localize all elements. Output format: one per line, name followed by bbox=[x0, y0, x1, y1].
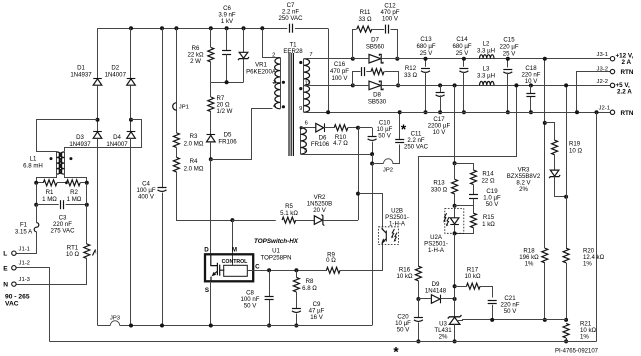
svg-text:VAC: VAC bbox=[5, 301, 19, 308]
wire R6 bottom bbox=[210, 62, 212, 82]
svg-text:10 kΩ: 10 kΩ bbox=[396, 273, 413, 280]
wire R10 to bias node bbox=[348, 127, 358, 129]
node C21 ref bbox=[490, 318, 494, 322]
svg-text:10 V: 10 V bbox=[433, 129, 446, 136]
capacitor C7 bbox=[290, 24, 293, 33]
label E bbox=[3, 265, 8, 272]
svg-text:0 Ω: 0 Ω bbox=[326, 257, 336, 264]
wire C6 top lead bbox=[226, 28, 228, 51]
wire VR1 top lead bbox=[243, 28, 245, 52]
label R12 bbox=[404, 65, 417, 79]
optocoupler U2A box bbox=[445, 209, 464, 234]
label pin 3 bbox=[273, 80, 276, 86]
wire R20 bottom to ref row bbox=[566, 263, 568, 320]
wire AC2 jog bbox=[65, 120, 142, 152]
wire drain node to U1 D pin bbox=[210, 159, 212, 254]
wire C21 bottom lead bbox=[492, 305, 494, 320]
svg-text:7: 7 bbox=[309, 52, 312, 58]
label J1-3 bbox=[19, 277, 31, 283]
transformer T1 bias phase dot bbox=[300, 126, 303, 129]
svg-text:RTN: RTN bbox=[621, 110, 634, 117]
label J2-2 bbox=[597, 79, 608, 85]
resistor R7 bbox=[208, 97, 214, 112]
node C15 bottom bbox=[506, 110, 510, 114]
wire R1 row left bbox=[36, 182, 43, 184]
wire M pin riser bbox=[232, 220, 234, 265]
wire C12 to D7 cathode bbox=[391, 30, 398, 59]
svg-text:2.0 MΩ: 2.0 MΩ bbox=[184, 140, 204, 147]
node M pin row bbox=[230, 218, 234, 222]
label R10 bbox=[333, 134, 348, 147]
terminal J1-2 E bbox=[12, 266, 16, 270]
wire VR1 bottom lead bbox=[243, 59, 245, 83]
wire R19 to VR3 bbox=[554, 155, 556, 170]
svg-text:16 V: 16 V bbox=[310, 314, 323, 321]
svg-text:JP2: JP2 bbox=[383, 168, 393, 174]
label JP3 bbox=[110, 316, 121, 322]
label R3 bbox=[184, 133, 204, 147]
svg-text:R4: R4 bbox=[190, 158, 198, 165]
svg-text:D1: D1 bbox=[77, 65, 85, 72]
label pin 4 bbox=[273, 103, 277, 109]
svg-text:10 Ω: 10 Ω bbox=[66, 251, 79, 258]
wire U1 S pin to source rail bbox=[210, 281, 212, 325]
svg-text:F1: F1 bbox=[20, 221, 28, 228]
wire C20 bottom lead bbox=[418, 323, 420, 342]
wire C14 top lead bbox=[463, 59, 465, 67]
label C11 bbox=[404, 131, 429, 151]
svg-text:50 V: 50 V bbox=[244, 303, 257, 310]
svg-text:D3: D3 bbox=[76, 134, 84, 141]
resistor R21 bbox=[563, 323, 569, 338]
node C8 top bbox=[267, 268, 271, 272]
svg-text:R11: R11 bbox=[360, 9, 371, 16]
label R11 bbox=[358, 9, 371, 23]
svg-text:R8: R8 bbox=[306, 278, 314, 285]
svg-text:JP3: JP3 bbox=[110, 316, 121, 322]
label L1 bbox=[23, 156, 43, 170]
svg-text:J1-1: J1-1 bbox=[19, 246, 30, 252]
thermistor RT1 tick bbox=[93, 250, 98, 256]
wire C19 bottom bbox=[455, 199, 474, 206]
node B+ / R6 branch bbox=[209, 26, 213, 30]
wire choke right bottom to R2 row bbox=[65, 175, 87, 183]
wire right column R2 to C3 bbox=[86, 183, 88, 205]
zener VR2 bbox=[314, 215, 324, 226]
wire TL431 anode bbox=[454, 324, 456, 341]
svg-text:33 Ω: 33 Ω bbox=[358, 16, 371, 23]
label U2B bbox=[385, 208, 409, 228]
label JP1 bbox=[179, 105, 189, 111]
wire R8 top lead bbox=[296, 270, 298, 277]
svg-text:D2: D2 bbox=[111, 65, 119, 72]
svg-text:D5: D5 bbox=[224, 132, 232, 139]
wire C13 bottom lead bbox=[425, 72, 427, 113]
svg-text:1%: 1% bbox=[583, 261, 592, 268]
wire R16 feed Z bbox=[419, 86, 517, 267]
node R21 earth bbox=[564, 339, 568, 343]
node J2-1 column bbox=[595, 110, 599, 114]
wire primary source rail bbox=[98, 325, 111, 327]
capacitor C15 bbox=[503, 70, 512, 74]
choke L1 left winding bbox=[57, 152, 62, 174]
svg-text:1N4007: 1N4007 bbox=[105, 72, 127, 79]
label CONTROL bbox=[222, 259, 248, 265]
svg-text:D4: D4 bbox=[113, 134, 121, 141]
node JP2 left bbox=[370, 162, 374, 166]
node bias plus bbox=[356, 126, 360, 130]
svg-text:1/2 W: 1/2 W bbox=[217, 108, 233, 115]
label C13 bbox=[416, 36, 435, 57]
svg-text:10 V: 10 V bbox=[525, 78, 538, 85]
capacitor C6 bbox=[222, 51, 231, 55]
svg-text:5: 5 bbox=[304, 148, 307, 154]
wire D3 anode to B- rail bbox=[97, 138, 99, 325]
label D8 bbox=[368, 92, 387, 106]
choke L1 core bbox=[59, 153, 61, 174]
capacitor C11 bbox=[395, 140, 404, 143]
wire R2 row right bbox=[80, 182, 87, 184]
svg-text:6: 6 bbox=[305, 120, 308, 126]
svg-text:J2-1: J2-1 bbox=[599, 106, 610, 112]
capacitor C3 bbox=[61, 200, 64, 209]
label R16 bbox=[396, 266, 413, 280]
resistor R9 bbox=[326, 267, 340, 273]
node R16 5V tap bbox=[514, 83, 518, 87]
node R20 5V tap bbox=[564, 83, 568, 87]
label F1 bbox=[15, 221, 33, 235]
optocoupler U2B transistor bbox=[382, 228, 386, 245]
wire opto collector feed bbox=[359, 194, 383, 227]
svg-text:400 V: 400 V bbox=[138, 194, 155, 201]
resistor R18 bbox=[542, 248, 548, 263]
optocoupler U2A LED bbox=[450, 218, 459, 225]
optocoupler U2B light arrows bbox=[391, 229, 397, 242]
node C15 top bbox=[506, 57, 510, 61]
svg-text:100 V: 100 V bbox=[332, 75, 349, 82]
wire C4 bottom lead bbox=[162, 193, 164, 326]
wire R13 bottom bbox=[454, 194, 456, 206]
label 2.2A bbox=[617, 89, 632, 96]
label C16 bbox=[330, 61, 349, 82]
wire C15 bottom lead bbox=[507, 73, 509, 113]
svg-text:3.15 A: 3.15 A bbox=[15, 228, 33, 235]
wire bias plus column bbox=[358, 128, 360, 220]
resistor R4 bbox=[173, 157, 179, 172]
wire T1 pin 5 lead to bias return bbox=[301, 154, 373, 156]
wire D2 anode to AC2 node bbox=[130, 85, 132, 131]
wire RTN rail right bbox=[400, 112, 611, 114]
wire R11 to C12 bbox=[372, 29, 384, 31]
node source rail S pin bbox=[209, 324, 213, 328]
svg-text:22 Ω: 22 Ω bbox=[481, 177, 494, 184]
resistor R12 bbox=[371, 69, 384, 75]
svg-text:PI-4765-092107: PI-4765-092107 bbox=[555, 349, 599, 355]
terminal J2-2 bbox=[610, 83, 614, 87]
capacitor C9 bbox=[292, 309, 301, 313]
svg-text:1-H-A: 1-H-A bbox=[389, 221, 406, 228]
svg-text:D: D bbox=[204, 246, 209, 253]
label PI number bbox=[555, 349, 599, 355]
svg-text:SB560: SB560 bbox=[366, 44, 385, 51]
node B+ / VR1 branch bbox=[242, 26, 246, 30]
label J1-1 bbox=[19, 246, 30, 252]
wire C3 right to RT1 bbox=[86, 205, 88, 245]
transformer T1 phase dot pin4 bbox=[282, 105, 285, 108]
wire R16 to D9 bbox=[418, 298, 431, 300]
label U1 D pin bbox=[204, 246, 209, 253]
label +5V bbox=[616, 82, 631, 89]
node B+ / JP1 branch bbox=[174, 26, 178, 30]
svg-text:275 VAC: 275 VAC bbox=[51, 228, 76, 235]
svg-text:90 - 265: 90 - 265 bbox=[5, 294, 30, 301]
svg-text:J3-2: J3-2 bbox=[597, 66, 608, 72]
node R16 D9 C20 bbox=[416, 297, 420, 301]
svg-text:2%: 2% bbox=[519, 186, 528, 193]
node D7 anode bbox=[351, 57, 355, 61]
svg-text:1 kV: 1 kV bbox=[221, 18, 234, 25]
diode D7 bbox=[369, 54, 383, 63]
label R6 bbox=[187, 45, 204, 65]
wire C3 left lead bbox=[36, 204, 59, 206]
svg-text:J1-3: J1-3 bbox=[19, 277, 31, 283]
svg-text:1N4007: 1N4007 bbox=[106, 141, 128, 148]
terminal J1-1 L bbox=[12, 251, 16, 255]
label R15 bbox=[482, 214, 495, 228]
node C17 top bbox=[438, 83, 442, 87]
ic U1 control block bbox=[224, 265, 248, 276]
svg-text:10 Ω: 10 Ω bbox=[569, 148, 582, 155]
label D7 bbox=[366, 37, 385, 51]
wire AC1 to choke bbox=[37, 120, 98, 152]
svg-text:R12: R12 bbox=[405, 65, 417, 72]
terminal J3-1 bbox=[610, 57, 614, 61]
node bias to opto collector bbox=[356, 192, 360, 196]
diode D3 bbox=[93, 132, 102, 139]
svg-text:1%: 1% bbox=[580, 333, 589, 340]
svg-text:P6KE200A: P6KE200A bbox=[246, 69, 277, 76]
svg-text:33 Ω: 33 Ω bbox=[404, 72, 417, 79]
capacitor C16 bbox=[362, 67, 365, 76]
optocoupler U2B box bbox=[379, 227, 399, 245]
svg-text:25 V: 25 V bbox=[503, 51, 516, 58]
wire C8 bottom lead bbox=[269, 300, 271, 326]
svg-text:470 pF: 470 pF bbox=[330, 68, 349, 75]
node LED top bbox=[453, 204, 457, 208]
label footnote asterisk bbox=[393, 345, 399, 356]
svg-text:250 VAC: 250 VAC bbox=[279, 15, 304, 22]
svg-text:100 V: 100 V bbox=[382, 16, 399, 23]
svg-text:RTN: RTN bbox=[621, 69, 634, 76]
node R1-R2 bbox=[65, 181, 68, 184]
svg-text:4.7 Ω: 4.7 Ω bbox=[333, 140, 348, 147]
wire R9 to opto emitter bbox=[340, 245, 383, 271]
svg-text:6.8 mH: 6.8 mH bbox=[23, 163, 43, 170]
capacitor C21 bbox=[488, 301, 497, 304]
resistor R3 bbox=[173, 133, 179, 148]
label U2A bbox=[424, 234, 448, 254]
wire R18 column from 12V rail bbox=[544, 59, 546, 249]
wire C10 bottom to JP2 node bbox=[372, 154, 374, 163]
wire TL431 ref stub bbox=[458, 320, 461, 322]
wire T1 pin 3 tap bbox=[273, 82, 281, 84]
wire J3-2 RTN link bbox=[577, 72, 611, 113]
wire R5 to VR2 bbox=[296, 220, 315, 222]
wire primary source rail right bbox=[120, 325, 372, 327]
node source rail C4 bbox=[160, 324, 164, 328]
svg-text:1-H-A: 1-H-A bbox=[428, 247, 445, 254]
wire fuse to L terminal bbox=[17, 232, 37, 254]
capacitor C13 bbox=[421, 69, 430, 73]
svg-text:680 µF: 680 µF bbox=[416, 43, 435, 50]
node VR3 join bbox=[564, 195, 568, 199]
label L bbox=[3, 251, 7, 258]
label J3-2 bbox=[597, 66, 608, 72]
capacitor C19 bbox=[469, 195, 478, 199]
label R13 bbox=[431, 180, 448, 194]
svg-text:2%: 2% bbox=[439, 333, 448, 340]
node C11 RTN bbox=[398, 110, 402, 114]
svg-text:680 µF: 680 µF bbox=[452, 43, 471, 50]
svg-text:D7: D7 bbox=[371, 37, 379, 44]
svg-text:CONTROL: CONTROL bbox=[222, 259, 248, 265]
label VR2 bbox=[307, 194, 332, 214]
wire D1 anode to AC1 node bbox=[97, 85, 99, 131]
wire E to earth rail bbox=[17, 268, 50, 342]
label T1 bbox=[283, 42, 303, 55]
svg-text:VR1: VR1 bbox=[255, 62, 267, 69]
node drain bbox=[209, 157, 213, 161]
wire T1 pin 9 lead (RTN rail start) bbox=[304, 112, 400, 114]
capacitor C4 bbox=[158, 188, 167, 192]
node J3-2 RTN bbox=[575, 110, 579, 114]
wire bias node to C10 bbox=[358, 127, 372, 129]
label L2 bbox=[477, 41, 495, 55]
wire R15 branch bbox=[455, 206, 474, 214]
node R18 ref bbox=[543, 318, 547, 322]
wire R12 to D8 cathode bbox=[385, 72, 399, 86]
wire VR3 to R20 column bbox=[555, 177, 567, 197]
transformer T1 secondary phase dot bbox=[299, 61, 302, 64]
svg-text:1 kΩ: 1 kΩ bbox=[482, 221, 495, 228]
svg-text:2 A: 2 A bbox=[622, 59, 632, 66]
node B+ / T1 primary feed bbox=[260, 26, 264, 30]
label C12 bbox=[381, 3, 400, 23]
wire C15 top lead bbox=[507, 59, 509, 68]
svg-text:3.3 µH: 3.3 µH bbox=[477, 73, 495, 80]
svg-text:J3-1: J3-1 bbox=[597, 52, 608, 58]
label R9 bbox=[326, 251, 336, 264]
node opto feed split bbox=[453, 161, 457, 165]
label +12V bbox=[616, 53, 634, 60]
label C19 bbox=[483, 188, 501, 208]
node clamp bottom C6 bbox=[225, 80, 229, 84]
svg-text:1 MΩ: 1 MΩ bbox=[42, 196, 57, 203]
wire C8 top lead bbox=[269, 270, 271, 296]
inductor L3 bbox=[480, 81, 495, 85]
svg-text:D8: D8 bbox=[373, 92, 381, 99]
wire R14 to C19 bbox=[473, 185, 475, 195]
wire C11 top lead to RTN bbox=[399, 112, 401, 139]
wire R6 top lead bbox=[210, 28, 212, 47]
node C20 earth bbox=[416, 339, 420, 343]
resistor R16 bbox=[415, 266, 421, 281]
wire T1 pin 7 lead bbox=[304, 58, 369, 60]
wire earth rail bbox=[49, 341, 596, 343]
wire R17 to C21 bbox=[480, 287, 493, 298]
node B+ / C6 branch bbox=[225, 26, 229, 30]
svg-text:1%: 1% bbox=[525, 261, 534, 268]
node D8 cathode bbox=[396, 83, 400, 87]
transformer T1 phase dot pin3 bbox=[282, 81, 285, 84]
svg-text:R14: R14 bbox=[482, 170, 494, 177]
wire 5V rail bbox=[381, 85, 610, 87]
svg-text:2: 2 bbox=[272, 53, 275, 59]
diode D6 bbox=[316, 123, 325, 132]
wire R17 row bbox=[455, 286, 467, 288]
label RT1 bbox=[66, 244, 79, 257]
label R21 bbox=[580, 320, 597, 340]
label R20 bbox=[583, 248, 605, 268]
svg-text:1N4148: 1N4148 bbox=[425, 288, 447, 295]
resistor R5 bbox=[282, 217, 296, 223]
svg-text:50 V: 50 V bbox=[486, 201, 499, 208]
wire J2-1 to earth rail bbox=[596, 112, 598, 341]
label pin 6 bbox=[305, 120, 308, 126]
transformer T1 secondary tap dot bbox=[299, 87, 302, 90]
svg-text:9: 9 bbox=[299, 106, 302, 112]
resistor R11 bbox=[357, 26, 372, 32]
svg-text:L1: L1 bbox=[30, 156, 37, 163]
svg-text:J2-2: J2-2 bbox=[597, 79, 608, 85]
node C13 bottom bbox=[424, 110, 428, 114]
resistor R14 bbox=[471, 170, 477, 185]
transformer T1 bias winding bbox=[301, 128, 307, 154]
label TOPSwitch-HX bbox=[254, 238, 299, 245]
label C6 bbox=[218, 5, 236, 25]
wire R3 to R4 bbox=[176, 147, 178, 157]
wire choke left bottom to R1 row bbox=[37, 175, 57, 183]
label C17 bbox=[428, 116, 451, 136]
wire RT1 to N terminal bbox=[17, 259, 87, 285]
wire left column R1 to C3 bbox=[36, 183, 38, 205]
wire U1 C pin link bbox=[247, 270, 253, 272]
jumper JP3 bbox=[110, 321, 119, 326]
transformer T1 secondary winding bbox=[304, 59, 310, 113]
wire TL431 cathode lead bbox=[454, 299, 456, 317]
svg-text:3: 3 bbox=[273, 80, 276, 86]
wire R4 to M row bbox=[177, 172, 233, 221]
label R7 bbox=[217, 95, 233, 115]
svg-text:JP1: JP1 bbox=[179, 105, 189, 111]
svg-text:S: S bbox=[205, 287, 209, 294]
wire 12V rail bbox=[381, 58, 612, 60]
wire U1 C pin row bbox=[253, 270, 327, 272]
node R2 right bbox=[85, 181, 89, 185]
wire opto feed column bbox=[454, 85, 456, 163]
label D4 bbox=[106, 134, 128, 148]
label D6 value bbox=[311, 141, 330, 148]
wire R19 jog bbox=[545, 123, 555, 141]
wire R18 bottom to ref row bbox=[544, 263, 546, 320]
label J3-1 bbox=[597, 52, 608, 58]
wire JP2 left stub bbox=[372, 163, 383, 165]
node LED bottom bbox=[453, 231, 457, 235]
label D1 bbox=[70, 65, 92, 79]
node C9 bottom bbox=[294, 324, 298, 328]
svg-text:220 µF: 220 µF bbox=[499, 44, 518, 51]
label C18 bbox=[522, 65, 541, 85]
